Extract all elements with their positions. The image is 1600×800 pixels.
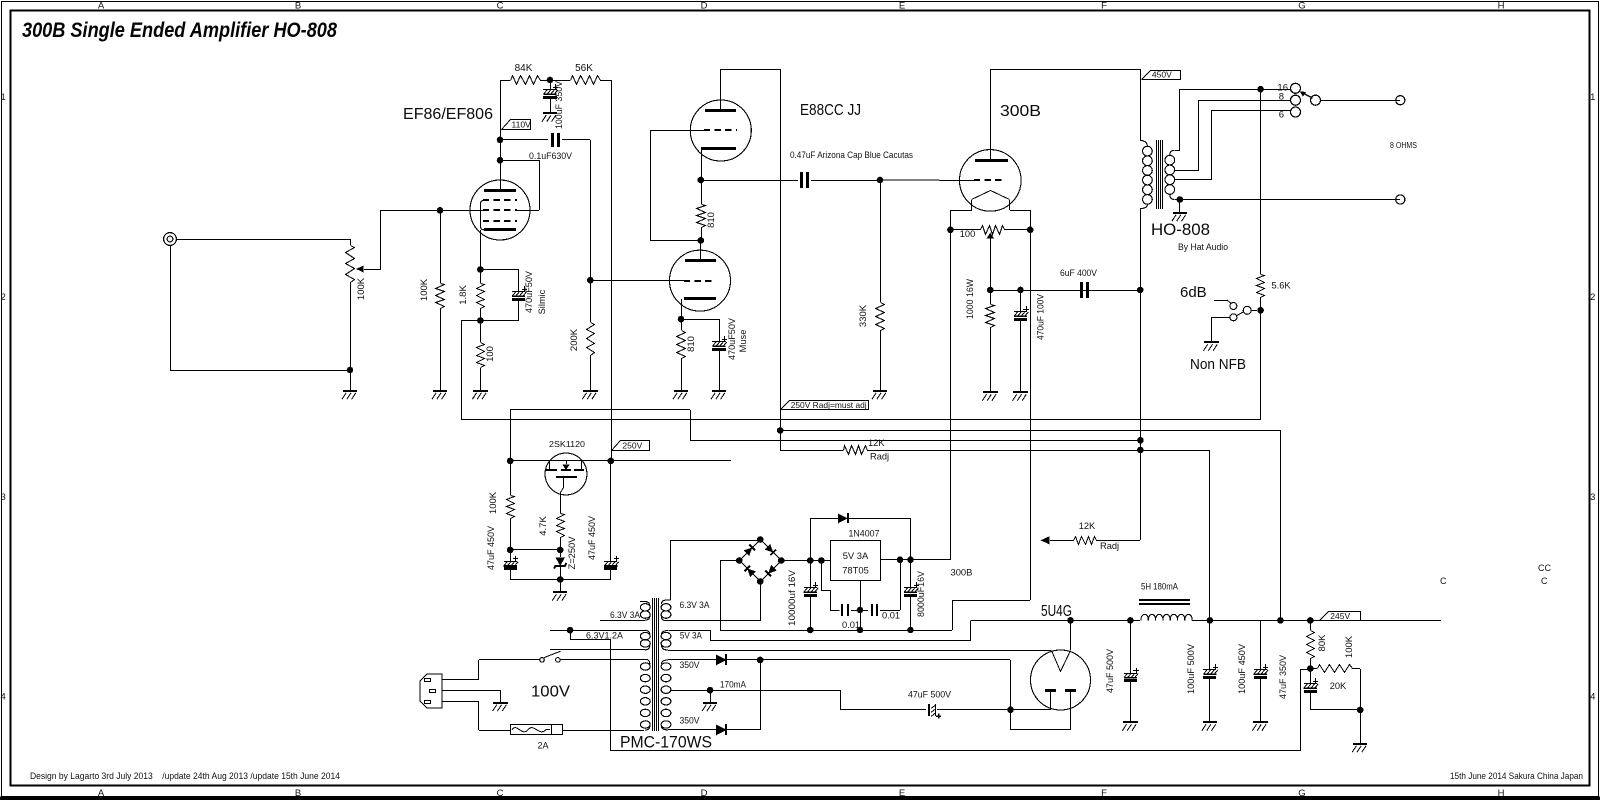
- svg-text:47uF 450V: 47uF 450V: [486, 525, 496, 570]
- svg-text:245V: 245V: [1330, 611, 1350, 621]
- svg-text:4: 4: [1590, 692, 1595, 703]
- svg-text:4: 4: [1, 692, 6, 703]
- svg-text:A: A: [98, 788, 105, 799]
- svg-text:100: 100: [960, 229, 976, 239]
- svg-text:6.3V 3A: 6.3V 3A: [610, 609, 641, 620]
- svg-text:EF86/EF806: EF86/EF806: [403, 106, 493, 123]
- svg-text:4.7K: 4.7K: [538, 516, 549, 536]
- svg-text:D: D: [701, 0, 708, 11]
- svg-text:A: A: [98, 0, 105, 11]
- svg-text:450V: 450V: [1152, 70, 1172, 80]
- svg-text:330K: 330K: [858, 304, 869, 327]
- svg-text:20K: 20K: [1330, 681, 1347, 691]
- svg-text:Silmic: Silmic: [537, 289, 547, 314]
- svg-text:100: 100: [485, 346, 496, 362]
- svg-text:Z=250V: Z=250V: [567, 536, 577, 570]
- svg-text:B: B: [295, 788, 301, 799]
- svg-text:110V: 110V: [512, 119, 532, 129]
- svg-text:D: D: [701, 788, 708, 799]
- svg-text:G: G: [1298, 788, 1305, 799]
- svg-text:5H 180mA: 5H 180mA: [1141, 581, 1179, 592]
- svg-text:470uF50V: 470uF50V: [727, 317, 737, 360]
- svg-text:810: 810: [686, 336, 697, 352]
- svg-text:2A: 2A: [537, 741, 548, 751]
- svg-text:470uF50V: 470uF50V: [524, 270, 534, 313]
- svg-text:47uF 350V: 47uF 350V: [1278, 654, 1288, 699]
- svg-text:200K: 200K: [569, 328, 580, 351]
- svg-text:PMC-170WS: PMC-170WS: [620, 734, 712, 752]
- svg-text:10000uf 16V: 10000uf 16V: [787, 569, 797, 626]
- svg-text:5V 3A: 5V 3A: [843, 550, 869, 561]
- svg-text:350V: 350V: [680, 659, 701, 670]
- svg-text:6uF 400V: 6uF 400V: [1060, 267, 1098, 278]
- svg-text:1000 16W: 1000 16W: [965, 279, 975, 319]
- svg-text:47uF 450V: 47uF 450V: [587, 515, 597, 560]
- svg-text:15th June 2014 Sakura China Ja: 15th June 2014 Sakura China Japan: [1450, 771, 1583, 781]
- svg-text:C: C: [1440, 576, 1447, 586]
- svg-text:Non NFB: Non NFB: [1190, 356, 1246, 373]
- svg-text:C: C: [497, 788, 504, 799]
- svg-text:6.3V 3A: 6.3V 3A: [680, 599, 711, 610]
- svg-text:470uF 100V: 470uF 100V: [1036, 293, 1046, 340]
- svg-text:E88CC JJ: E88CC JJ: [800, 102, 861, 119]
- svg-text:6dB: 6dB: [1180, 284, 1207, 301]
- svg-text:Muse: Muse: [738, 330, 748, 353]
- svg-text:300B Single Ended Amplifier H: 300B Single Ended Amplifier HO-808: [22, 18, 337, 42]
- svg-text:810: 810: [706, 212, 717, 228]
- svg-text:100uF 450V: 100uF 450V: [1237, 643, 1247, 694]
- svg-text:170mA: 170mA: [720, 678, 747, 689]
- svg-text:12K: 12K: [868, 438, 885, 448]
- svg-text:0.1uF630V: 0.1uF630V: [529, 150, 573, 161]
- svg-text:HO-808: HO-808: [1151, 221, 1210, 239]
- svg-text:100V: 100V: [531, 684, 570, 701]
- svg-text:5.6K: 5.6K: [1272, 281, 1292, 291]
- svg-text:100uF 500V: 100uF 500V: [1186, 643, 1196, 694]
- svg-text:F: F: [1101, 788, 1107, 799]
- svg-text:Radj: Radj: [1100, 541, 1119, 551]
- svg-text:By Hat Audio: By Hat Audio: [1178, 242, 1228, 252]
- svg-text:6.3V1.2A: 6.3V1.2A: [586, 630, 624, 641]
- svg-text:1N4007: 1N4007: [849, 528, 880, 539]
- svg-text:56K: 56K: [575, 63, 593, 74]
- svg-text:100K: 100K: [419, 278, 430, 301]
- svg-text:1: 1: [1590, 92, 1595, 103]
- svg-text:G: G: [1298, 0, 1305, 11]
- svg-text:CC: CC: [1538, 563, 1551, 573]
- svg-text:47uF 500V: 47uF 500V: [908, 688, 952, 699]
- svg-text:1: 1: [1, 92, 6, 103]
- svg-text:100uF 350V: 100uF 350V: [554, 80, 564, 129]
- svg-text:E: E: [899, 0, 905, 11]
- svg-text:100K: 100K: [488, 491, 499, 514]
- svg-text:47uF 500V: 47uF 500V: [1105, 648, 1115, 693]
- svg-text:C: C: [497, 0, 504, 11]
- svg-text:0.47uF Arizona Cap Blue Cacuta: 0.47uF Arizona Cap Blue Cacutas: [790, 150, 913, 160]
- svg-text:C: C: [1541, 576, 1548, 586]
- svg-text:8 OHMS: 8 OHMS: [1390, 140, 1417, 150]
- svg-text:2: 2: [1590, 292, 1595, 303]
- svg-text:100K: 100K: [1344, 635, 1355, 658]
- svg-text:0.01: 0.01: [882, 611, 900, 621]
- svg-text:2SK1120: 2SK1120: [549, 439, 585, 449]
- svg-text:3: 3: [1, 492, 6, 503]
- svg-text:300B: 300B: [951, 567, 973, 578]
- svg-text:100K: 100K: [356, 277, 367, 300]
- svg-text:1.8K: 1.8K: [458, 285, 469, 305]
- svg-text:350V: 350V: [680, 715, 701, 726]
- svg-text:84K: 84K: [515, 63, 533, 74]
- svg-text:H: H: [1498, 0, 1505, 11]
- svg-text:5U4G: 5U4G: [1041, 603, 1072, 620]
- svg-text:3: 3: [1590, 492, 1595, 503]
- svg-text:5V 3A: 5V 3A: [680, 630, 703, 641]
- svg-text:250V: 250V: [622, 440, 642, 450]
- svg-text:300B: 300B: [1000, 103, 1041, 120]
- svg-text:78T05: 78T05: [842, 565, 869, 576]
- svg-text:80K: 80K: [1317, 634, 1328, 652]
- svg-text:8000uF16V: 8000uF16V: [916, 570, 926, 617]
- svg-text:2: 2: [1, 292, 6, 303]
- svg-text:F: F: [1101, 0, 1107, 11]
- svg-text:0.01: 0.01: [842, 620, 860, 630]
- svg-text:12K: 12K: [1079, 521, 1096, 531]
- svg-text:E: E: [899, 788, 905, 799]
- svg-text:B: B: [295, 0, 301, 11]
- svg-text:8: 8: [1279, 91, 1284, 102]
- svg-text:Radj: Radj: [870, 452, 889, 462]
- svg-text:Design by Lagarto 3rd July 201: Design by Lagarto 3rd July 2013 /update …: [30, 771, 340, 781]
- svg-text:H: H: [1498, 788, 1505, 799]
- svg-text:6: 6: [1279, 110, 1284, 121]
- svg-text:250V Radj=must adj: 250V Radj=must adj: [791, 400, 867, 410]
